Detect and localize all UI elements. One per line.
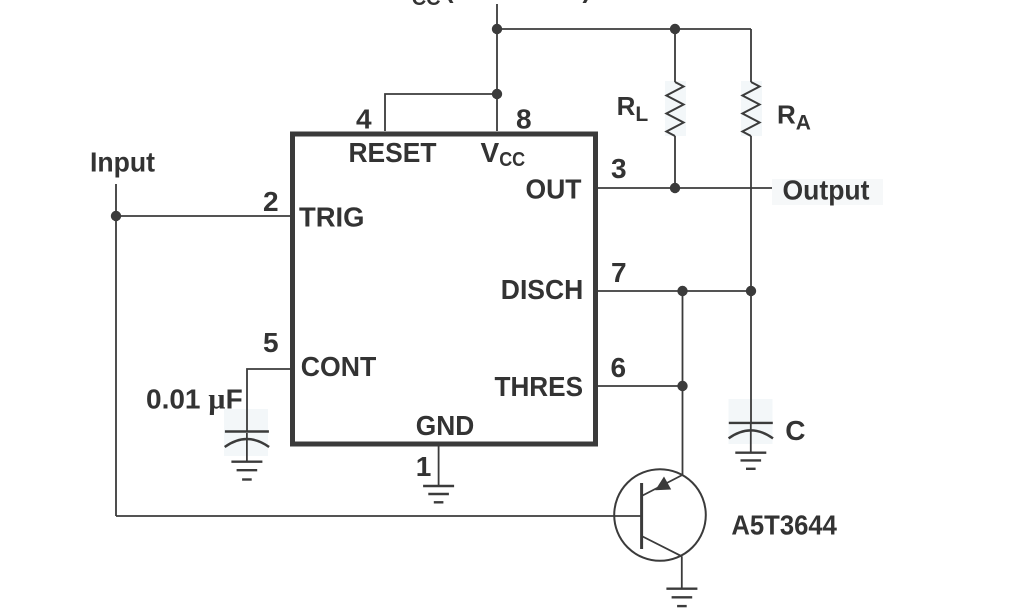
svg-text:1: 1 [416, 451, 432, 482]
svg-text:VCC: VCC [481, 137, 526, 171]
svg-text:8: 8 [516, 104, 532, 135]
wire pin 7 DISCH to RA [596, 290, 751, 292]
svg-text:7: 7 [611, 257, 627, 288]
wire transistor emitter to ground [681, 556, 683, 588]
svg-text:Input: Input [90, 147, 155, 178]
wire riser from DISCH node down to transistor collector [682, 291, 684, 475]
svg-text:TRIG: TRIG [299, 202, 365, 233]
svg-text:A5T3644: A5T3644 [731, 509, 837, 540]
wire pin 2 TRIG from input node [116, 215, 290, 217]
wire RA bottom to DISCH node and capacitor C [750, 136, 752, 423]
svg-text:RL: RL [617, 91, 649, 126]
svg-text:CONT: CONT [301, 351, 377, 382]
node junction dots [111, 24, 756, 391]
svg-text:4: 4 [356, 104, 372, 135]
svg-text:0.01 µF: 0.01 µF [146, 383, 243, 416]
svg-text:RESET: RESET [349, 137, 437, 168]
svg-text:THRES: THRES [495, 371, 584, 402]
svg-text:RA: RA [777, 99, 811, 134]
IC U1 NE555 body [293, 134, 596, 444]
svg-text:5: 5 [263, 327, 279, 358]
svg-text:3: 3 [611, 153, 627, 184]
capacitor C [729, 423, 773, 453]
capacitor C1 0.01uF [225, 432, 269, 462]
wire input node down left side [115, 216, 117, 516]
wire Input stub [115, 184, 117, 216]
svg-text:6: 6 [611, 352, 627, 383]
ground pin 1 [423, 486, 454, 502]
wire pin 3 OUT to Output [596, 187, 772, 189]
wire pin 1 GND stub [438, 446, 440, 486]
ground below transistor [666, 589, 697, 606]
svg-text:Output: Output [783, 175, 870, 206]
wire pin 6 THRES to riser [596, 385, 683, 387]
svg-text:VCC(5 V to 15 V): VCC(5 V to 15 V) [393, 0, 591, 10]
svg-text:GND: GND [416, 410, 475, 441]
wire VCC stub from supply label down to pin 8 [496, 4, 498, 131]
ground below C1 [231, 462, 262, 480]
resistor RA [742, 82, 759, 136]
net label VCC supply (cut off at top) [393, 0, 591, 10]
wire bottom run to transistor base [116, 515, 641, 517]
svg-text:DISCH: DISCH [501, 274, 584, 305]
resistor RL [666, 82, 683, 136]
transistor Q1 A5T3644 [614, 469, 706, 561]
svg-text:OUT: OUT [526, 174, 582, 205]
wire RL top stub [674, 29, 676, 82]
svg-text:2: 2 [263, 186, 279, 217]
svg-text:C: C [785, 415, 805, 446]
ground below C [735, 453, 766, 469]
wire pin 5 CONT to bypass capacitor [247, 369, 290, 431]
wire top supply rail to RA [497, 28, 751, 30]
wire RL bottom stub to OUT line [674, 136, 676, 188]
wire RA top drop [750, 29, 752, 82]
wire pin 4 RESET jumper to VCC [385, 94, 497, 131]
